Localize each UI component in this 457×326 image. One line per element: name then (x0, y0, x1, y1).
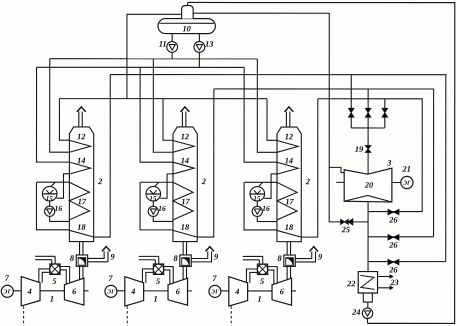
inlet valve line 1 to turbine manifold (wire) (350, 75, 352, 108)
svg-text:14: 14 (77, 156, 85, 165)
unit 1: pipe compressor 4 to blower 5 (wire) (39, 269, 50, 282)
header F condensate to tray-12 feeds (wire) (59, 98, 267, 100)
svg-text:4: 4 (234, 287, 239, 296)
header E from unit 2 tray 18 (wire) (214, 89, 434, 237)
unit 3: pipe damper 8 to vent arrow 9 (wire) (295, 252, 312, 259)
unit 3: tray 12 (277, 141, 298, 153)
svg-text:16: 16 (54, 204, 62, 213)
bypass line with valve 26c (wire) (368, 261, 446, 263)
unit 2: feed line into tray 14 (wire) (140, 67, 173, 162)
svg-text:8: 8 (277, 254, 282, 263)
unit 1: exhaust arrow 9 (102, 247, 110, 252)
svg-text:17: 17 (181, 197, 190, 206)
unit 2: line from tray 12 bottom to header A (wire) (153, 59, 173, 153)
valve 26c (388, 259, 394, 265)
turbine 20 (344, 168, 392, 202)
unit 2: shaft 1 (wire) (117, 290, 125, 292)
unit 1: column 2 vessel (69, 127, 93, 242)
unit 3: vent arrow at column top (285, 112, 287, 127)
unit 3: intake pipe to blower 5 (wire) (243, 255, 263, 257)
svg-text:ЭГ: ЭГ (107, 289, 115, 295)
svg-text:2: 2 (201, 177, 206, 186)
svg-text:4: 4 (130, 287, 135, 296)
unit 1: coil 17 (69, 182, 89, 220)
turbine 20 left shaft stub (wire) (336, 181, 344, 183)
unit 3: shaft 1 (wire) (221, 290, 229, 292)
svg-text:11: 11 (159, 40, 167, 49)
unit 1: pipe damper 8 to turbine 6 (wire) (79, 266, 81, 279)
unit 1: feed line into tray 14 (wire) (37, 67, 70, 162)
svg-text:9: 9 (214, 252, 218, 261)
unit 3: compressor 4 (229, 277, 248, 306)
unit 3: pipe damper 8 to turbine 6 (wire) (286, 266, 288, 279)
svg-text:18: 18 (181, 223, 190, 232)
header A from pump 11 to tray-12 lines (wire) (50, 58, 258, 60)
unit 1: pipe blower 5 to turbine 6 (wire) (60, 267, 70, 284)
inlet valve line 3 to turbine manifold (wire) (384, 99, 386, 108)
svg-text:12: 12 (181, 132, 189, 141)
unit 2: coil 17 (173, 182, 193, 220)
svg-text:8: 8 (70, 254, 75, 263)
unit 1: line from tray 12 bottom to header A (wire) (50, 59, 70, 153)
unit 1: intake pipe to blower 5 (wire) (35, 255, 55, 257)
svg-text:23: 23 (389, 278, 398, 287)
unit 3: air intake dashed line (wire) (230, 306, 232, 326)
unit 3: generator 7 (209, 285, 221, 297)
svg-text:5: 5 (52, 277, 56, 286)
svg-text:16: 16 (262, 204, 270, 213)
svg-text:1: 1 (257, 295, 261, 304)
unit 1: turbine 6 (64, 278, 84, 305)
unit 2: pipe compressor 4 to blower 5 (wire) (142, 269, 153, 282)
unit 2: blower 5 (153, 264, 163, 275)
svg-text:26: 26 (388, 215, 398, 224)
unit 2: intake pipe to blower 5 (wire) (139, 255, 159, 257)
unit 3: blower 5 (257, 264, 267, 275)
inlet valve 1 (348, 108, 354, 113)
svg-text:25: 25 (341, 225, 350, 234)
valve 26a (388, 209, 394, 215)
svg-text:ЭГ: ЭГ (211, 289, 219, 295)
svg-text:7: 7 (5, 274, 10, 283)
svg-text:10: 10 (183, 24, 191, 33)
valve 25 (341, 219, 345, 224)
unit 3: coil 17 top feed line (wire) (244, 181, 277, 183)
unit 3: tray 18 outlet riser (wire) (301, 99, 318, 237)
unit 2: pipe damper 8 to vent arrow 9 (wire) (191, 251, 208, 258)
svg-text:8: 8 (173, 254, 178, 263)
unit 3: pump 16 (252, 206, 262, 216)
unit 2: pipe damper 8 to turbine 6 (wire) (182, 266, 184, 279)
svg-text:ЭГ: ЭГ (403, 181, 411, 187)
unit 2: pipe 15 to pump 16 (wire) (152, 201, 154, 207)
unit 2: vent arrow at column top (181, 112, 183, 127)
svg-text:4: 4 (27, 287, 32, 296)
unit 3: tray 14 (277, 162, 298, 174)
unit 1: feed line into tray 12 (wire) (59, 99, 69, 141)
svg-text:16: 16 (158, 204, 166, 213)
unit 1: compressor 4 (21, 277, 40, 306)
unit 3: separator 15 top stub (wire) (258, 182, 262, 186)
unit 3: column bottom pipe to damper 8 (wire) (286, 242, 288, 255)
unit 2: damper box 8 (180, 255, 191, 266)
unit 2: separator vessel 15 (146, 186, 161, 201)
turbine inlet manifold (wire) (351, 127, 385, 129)
outlet streams 23 (wire) (378, 275, 390, 277)
unit 2: tray 18 outlet riser (wire) (197, 89, 214, 237)
turbine 20 exhaust pipe (wire) (367, 202, 369, 272)
unit 2: tray 18 (173, 230, 197, 237)
unit 3: feed line into tray 12 (wire) (267, 99, 277, 141)
unit 1: separator vessel 15 (42, 186, 57, 201)
header B from pump 13 to tray-14 lines (wire) (37, 66, 245, 68)
svg-text:20: 20 (364, 181, 373, 190)
unit 1: tray 18 (69, 230, 93, 237)
svg-text:7: 7 (108, 274, 113, 283)
header C from unit 1 tray 18 (wire) (110, 75, 446, 262)
svg-text:2: 2 (97, 177, 102, 186)
svg-text:22: 22 (346, 279, 355, 288)
svg-text:17: 17 (78, 197, 87, 206)
unit 1: coil 17 top feed line (wire) (36, 181, 69, 183)
svg-text:17: 17 (285, 197, 294, 206)
inlet valve 3 (382, 108, 388, 113)
unit 1: tray 18 outlet riser (wire) (94, 75, 111, 238)
svg-text:5: 5 (260, 277, 264, 286)
unit 3: pipe 15 to pump 16 (wire) (256, 201, 258, 207)
drum steam line to turbine and valve 25 (wire) (193, 13, 368, 222)
unit 1: shaft 1 (wire) (13, 290, 21, 292)
unit 3: loop down to tray 18 feed (wire) (244, 182, 277, 230)
unit 3: column 2 vessel (277, 127, 301, 242)
pump 13 (198, 34, 200, 42)
unit 1: tray 12 (69, 140, 90, 152)
svg-text:7: 7 (212, 274, 217, 283)
unit 1: tray 14 drain to separator 15 (wire) (57, 174, 70, 198)
svg-text:9: 9 (318, 252, 322, 261)
inlet valve line 2 to turbine manifold (wire) (367, 89, 369, 108)
unit 3: exhaust arrow 9 (310, 247, 318, 252)
svg-text:14: 14 (285, 156, 293, 165)
unit 1: pipe damper 8 to vent arrow 9 (wire) (88, 251, 105, 258)
unit 3: tray 14 drain to separator 15 (wire) (264, 174, 277, 198)
unit 3: pipe compressor 4 to blower 5 (wire) (246, 269, 257, 282)
drum 10 (158, 19, 215, 34)
unit 2: pump 16 discharge to column (wire) (153, 216, 173, 221)
unit 1: air intake dashed line (wire) (23, 306, 25, 326)
svg-text:1: 1 (153, 295, 157, 304)
svg-text:19: 19 (355, 145, 363, 154)
unit 2: tray 14 (173, 162, 194, 174)
svg-text:3: 3 (386, 158, 391, 167)
heat exchanger 22 (358, 272, 377, 293)
pump 11 (171, 34, 173, 42)
svg-text:12: 12 (77, 132, 85, 141)
unit 1: blower 5 (50, 264, 60, 275)
pump 24 discharge to loop (wire) (367, 318, 369, 323)
top right circulation loop (wire) (188, 2, 455, 323)
unit 2: separator 15 top stub (wire) (154, 182, 158, 186)
svg-text:26: 26 (388, 265, 398, 274)
svg-text:18: 18 (77, 223, 86, 232)
unit 3: tray 18 (277, 230, 301, 237)
pipe manifold to valve 19 (wire) (367, 128, 369, 145)
bypass line with valve 26a (wire) (368, 211, 422, 213)
svg-text:9: 9 (110, 252, 114, 261)
unit 2: exhaust arrow 9 (206, 247, 214, 252)
drum feed line from top loop (wire) (187, 2, 189, 5)
bypass line with valve 26b (wire) (368, 236, 434, 238)
svg-text:13: 13 (205, 40, 213, 49)
svg-text:14: 14 (181, 156, 189, 165)
turbine 20 shaft to generator 21 (wire) (392, 181, 401, 183)
svg-text:24: 24 (351, 308, 360, 317)
valve 26b (388, 234, 394, 240)
unit 1: pump 16 (45, 206, 55, 216)
unit 2: generator 7 (105, 285, 117, 297)
unit 1: column bottom pipe to damper 8 (wire) (79, 242, 81, 255)
unit 3: damper box 8 (284, 255, 295, 266)
pump 24 (362, 308, 372, 318)
header F2 from unit 3 tray 18 (wire) (318, 99, 422, 212)
drum left condensate line to header F (wire) (127, 14, 182, 98)
unit 1: loop down to tray 18 feed (wire) (36, 182, 69, 230)
heat exchanger 22 bottom neck (363, 293, 372, 302)
unit 3: line from tray 12 bottom to header A (wire) (257, 59, 277, 153)
unit 1: vent arrow at column top (78, 112, 80, 127)
drum 10 dome nozzle (182, 6, 194, 19)
unit 3: coil 17 (277, 182, 297, 220)
unit 2: feed line into tray 12 (wire) (163, 99, 173, 141)
svg-text:26: 26 (388, 241, 398, 250)
svg-text:ЭГ: ЭГ (4, 289, 12, 295)
unit 2: air intake dashed line (wire) (126, 306, 128, 326)
unit 1: generator 7 (1, 285, 13, 297)
unit 1: pump 16 discharge to column (wire) (50, 216, 70, 221)
generator 21 (401, 176, 413, 188)
svg-text:2: 2 (305, 177, 310, 186)
svg-text:12: 12 (285, 132, 293, 141)
unit 1: damper box 8 (76, 255, 87, 266)
unit 1: separator 15 top stub (wire) (51, 182, 55, 186)
unit 3: separator vessel 15 (250, 187, 265, 202)
unit 3: feed line into tray 14 (wire) (244, 67, 277, 162)
unit 2: turbine 6 (168, 278, 188, 305)
inlet valve 2 (365, 108, 371, 113)
steam branch into turbine 20 (wire) (329, 167, 344, 172)
unit 1: pipe 15 to pump 16 (wire) (49, 201, 51, 207)
unit 3: pipe blower 5 to turbine 6 (wire) (268, 267, 278, 284)
svg-text:21: 21 (402, 165, 411, 174)
unit 2: coil 17 top feed line (wire) (140, 181, 173, 183)
unit 3: pump 16 discharge to column (wire) (257, 217, 277, 222)
unit 2: pipe blower 5 to turbine 6 (wire) (164, 267, 174, 284)
unit 2: compressor 4 (125, 277, 144, 306)
valve 19 (365, 145, 371, 149)
svg-text:18: 18 (285, 223, 294, 232)
svg-text:5: 5 (156, 277, 160, 286)
svg-text:1: 1 (50, 295, 54, 304)
unit 3: turbine 6 (272, 278, 292, 305)
unit 2: tray 14 drain to separator 15 (wire) (160, 174, 173, 198)
unit 2: column bottom pipe to damper 8 (wire) (182, 242, 184, 255)
unit 2: tray 12 (173, 140, 194, 152)
unit 1: tray 14 (69, 162, 90, 174)
pipe neck to pump 24 (wire) (367, 302, 369, 308)
unit 2: pump 16 (148, 206, 158, 216)
unit 2: column 2 vessel (173, 127, 197, 242)
unit 2: loop down to tray 18 feed (wire) (140, 182, 173, 230)
pipe valve 19 to turbine 20 (wire) (367, 153, 369, 175)
